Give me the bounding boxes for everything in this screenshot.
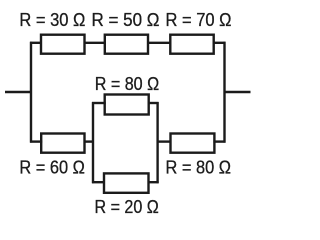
resistor R5 (R = 80 ohm upper): [105, 95, 149, 115]
wire inner right bus (node B): [156, 102, 158, 183]
resistor R1 (R = 30 ohm): [41, 35, 85, 54]
wire left bus: [30, 42, 32, 143]
resistor R3 (R = 70 ohm): [170, 35, 213, 54]
wire node A to R6: [92, 181, 105, 183]
svg-text:R = 30 Ω: R = 30 Ω: [19, 9, 85, 30]
wire right bus: [223, 42, 225, 143]
wire inner left bus (node A): [92, 102, 94, 183]
wire node A to R5: [92, 102, 106, 104]
wire R7 to right bus: [213, 140, 225, 142]
resistor R4 (R = 60 ohm): [41, 134, 84, 153]
resistor R2 (R = 50 ohm): [105, 35, 148, 54]
wire R1 to R2: [84, 42, 107, 44]
wire left terminal: [5, 91, 32, 93]
svg-text:R = 20 Ω: R = 20 Ω: [95, 196, 159, 217]
svg-text:R = 80 Ω: R = 80 Ω: [166, 157, 232, 178]
wire R3 to right bus: [213, 42, 226, 44]
wire R2 to R3: [147, 42, 171, 44]
wire node B to R7: [157, 140, 172, 142]
resistor R7 (R = 80 ohm lower): [171, 134, 215, 153]
wire R5 to node B: [148, 102, 159, 104]
svg-text:R = 80 Ω: R = 80 Ω: [95, 73, 160, 94]
svg-text:R = 60 Ω: R = 60 Ω: [19, 157, 85, 178]
resistor R6 (R = 20 ohm): [104, 173, 149, 192]
wire right terminal: [224, 91, 251, 93]
wire R6 to node B: [148, 181, 159, 183]
wire bus to R1: [30, 42, 42, 44]
svg-text:R = 70 Ω: R = 70 Ω: [166, 9, 232, 30]
wire bus to R4: [30, 140, 42, 142]
svg-text:R = 50 Ω: R = 50 Ω: [92, 9, 160, 30]
wire R4 to node A: [84, 140, 95, 142]
